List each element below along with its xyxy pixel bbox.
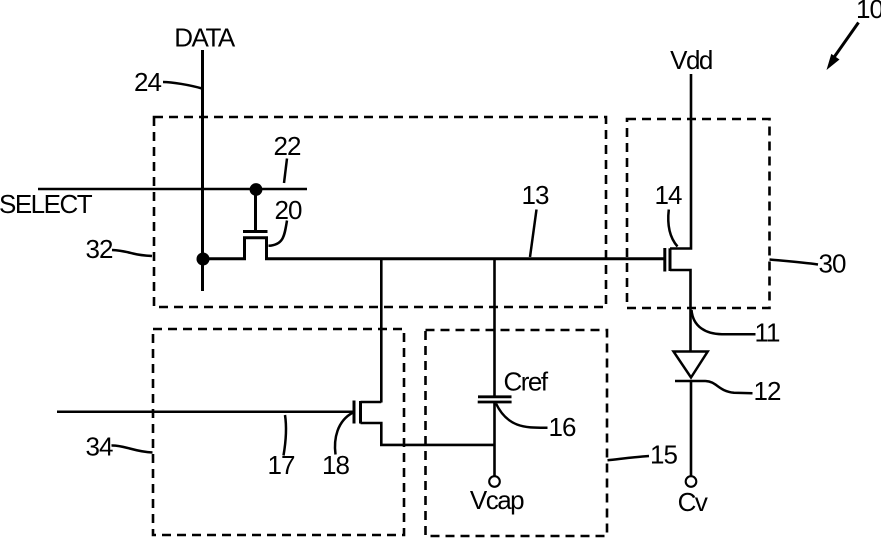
transistor Q14 channel bar bbox=[669, 248, 672, 271]
leader 15 bbox=[608, 456, 650, 460]
diode D12 cathode bar bbox=[675, 380, 706, 383]
svg-text:10: 10 bbox=[856, 0, 881, 24]
leader 30 bbox=[770, 260, 819, 265]
leader 16 bbox=[496, 404, 548, 428]
wire Cref to Vcap terminal bbox=[493, 403, 496, 477]
svg-text:17: 17 bbox=[268, 450, 295, 480]
leader 11 bbox=[692, 310, 756, 334]
diode D12 triangle bbox=[674, 352, 708, 378]
svg-text:Cref: Cref bbox=[504, 367, 549, 397]
dashed box 34 bbox=[153, 329, 404, 535]
svg-text:30: 30 bbox=[819, 249, 846, 279]
wire gate line of Q18 (net 17) bbox=[57, 411, 353, 414]
leader 14 bbox=[668, 210, 677, 247]
wire diode to Cv terminal bbox=[690, 382, 693, 476]
transistor Q14 source lead down to diode bbox=[670, 270, 691, 352]
transistor Q20 gate lead bbox=[254, 193, 257, 230]
svg-text:13: 13 bbox=[522, 180, 549, 210]
transistor Q20 channel + wire node 13 (drain of Q20 to gate of Q14) bbox=[204, 238, 665, 259]
svg-text:24: 24 bbox=[134, 67, 161, 97]
svg-text:16: 16 bbox=[549, 412, 576, 442]
capacitor Cref bottom plate bbox=[478, 401, 512, 404]
svg-text:SELECT: SELECT bbox=[0, 189, 93, 219]
terminal Cv circle bbox=[686, 476, 697, 487]
transistor Q14 gate bar bbox=[663, 248, 666, 272]
dashed box 15 bbox=[426, 330, 608, 536]
arrow 10 head bbox=[827, 54, 840, 70]
svg-text:20: 20 bbox=[275, 195, 302, 225]
svg-text:34: 34 bbox=[86, 432, 113, 462]
dashed box 32 bbox=[154, 117, 606, 307]
terminal Vcap circle bbox=[489, 476, 500, 487]
wire Vdd vertical + drain lead of Q14 bbox=[670, 74, 691, 249]
transistor Q18 gate bar bbox=[353, 401, 356, 424]
leader 20 bbox=[269, 221, 288, 246]
leader 17 bbox=[284, 415, 287, 456]
arrow 10 shaft bbox=[834, 23, 859, 59]
leader 13 bbox=[530, 210, 537, 258]
wire branch node13 down to drain of Q18 bbox=[380, 258, 383, 403]
junction dot SELECT/gate of Q20 bbox=[250, 183, 263, 196]
svg-text:15: 15 bbox=[650, 440, 677, 470]
leader 32 bbox=[112, 250, 152, 256]
svg-text:Vdd: Vdd bbox=[670, 45, 712, 75]
dashed box 30 bbox=[627, 119, 770, 308]
leader 18 bbox=[335, 413, 353, 455]
capacitor Cref top plate bbox=[478, 395, 512, 398]
wire branch node13 down to Cref bbox=[493, 258, 496, 397]
junction dot DATA/source of Q20 bbox=[197, 253, 210, 266]
wire DATA vertical line bbox=[201, 50, 204, 291]
transistor Q18 source lead to Vcap node bbox=[361, 423, 495, 445]
svg-text:14: 14 bbox=[655, 180, 682, 210]
wire SELECT horizontal line bbox=[38, 188, 307, 191]
svg-text:22: 22 bbox=[274, 131, 301, 161]
svg-text:32: 32 bbox=[86, 234, 113, 264]
transistor Q18 drain lead bbox=[361, 401, 382, 404]
transistor Q20 gate bar bbox=[243, 230, 268, 233]
leader 34 bbox=[112, 445, 153, 452]
leader 22 bbox=[284, 159, 287, 184]
leader 12 bbox=[706, 381, 753, 393]
svg-text:18: 18 bbox=[322, 450, 349, 480]
svg-text:Cv: Cv bbox=[678, 487, 708, 517]
leader 24 bbox=[163, 82, 202, 89]
transistor Q18 channel bar bbox=[359, 401, 362, 424]
svg-text:Vcap: Vcap bbox=[470, 485, 524, 515]
svg-text:12: 12 bbox=[754, 376, 781, 406]
svg-text:11: 11 bbox=[755, 318, 781, 348]
svg-text:DATA: DATA bbox=[174, 23, 236, 53]
